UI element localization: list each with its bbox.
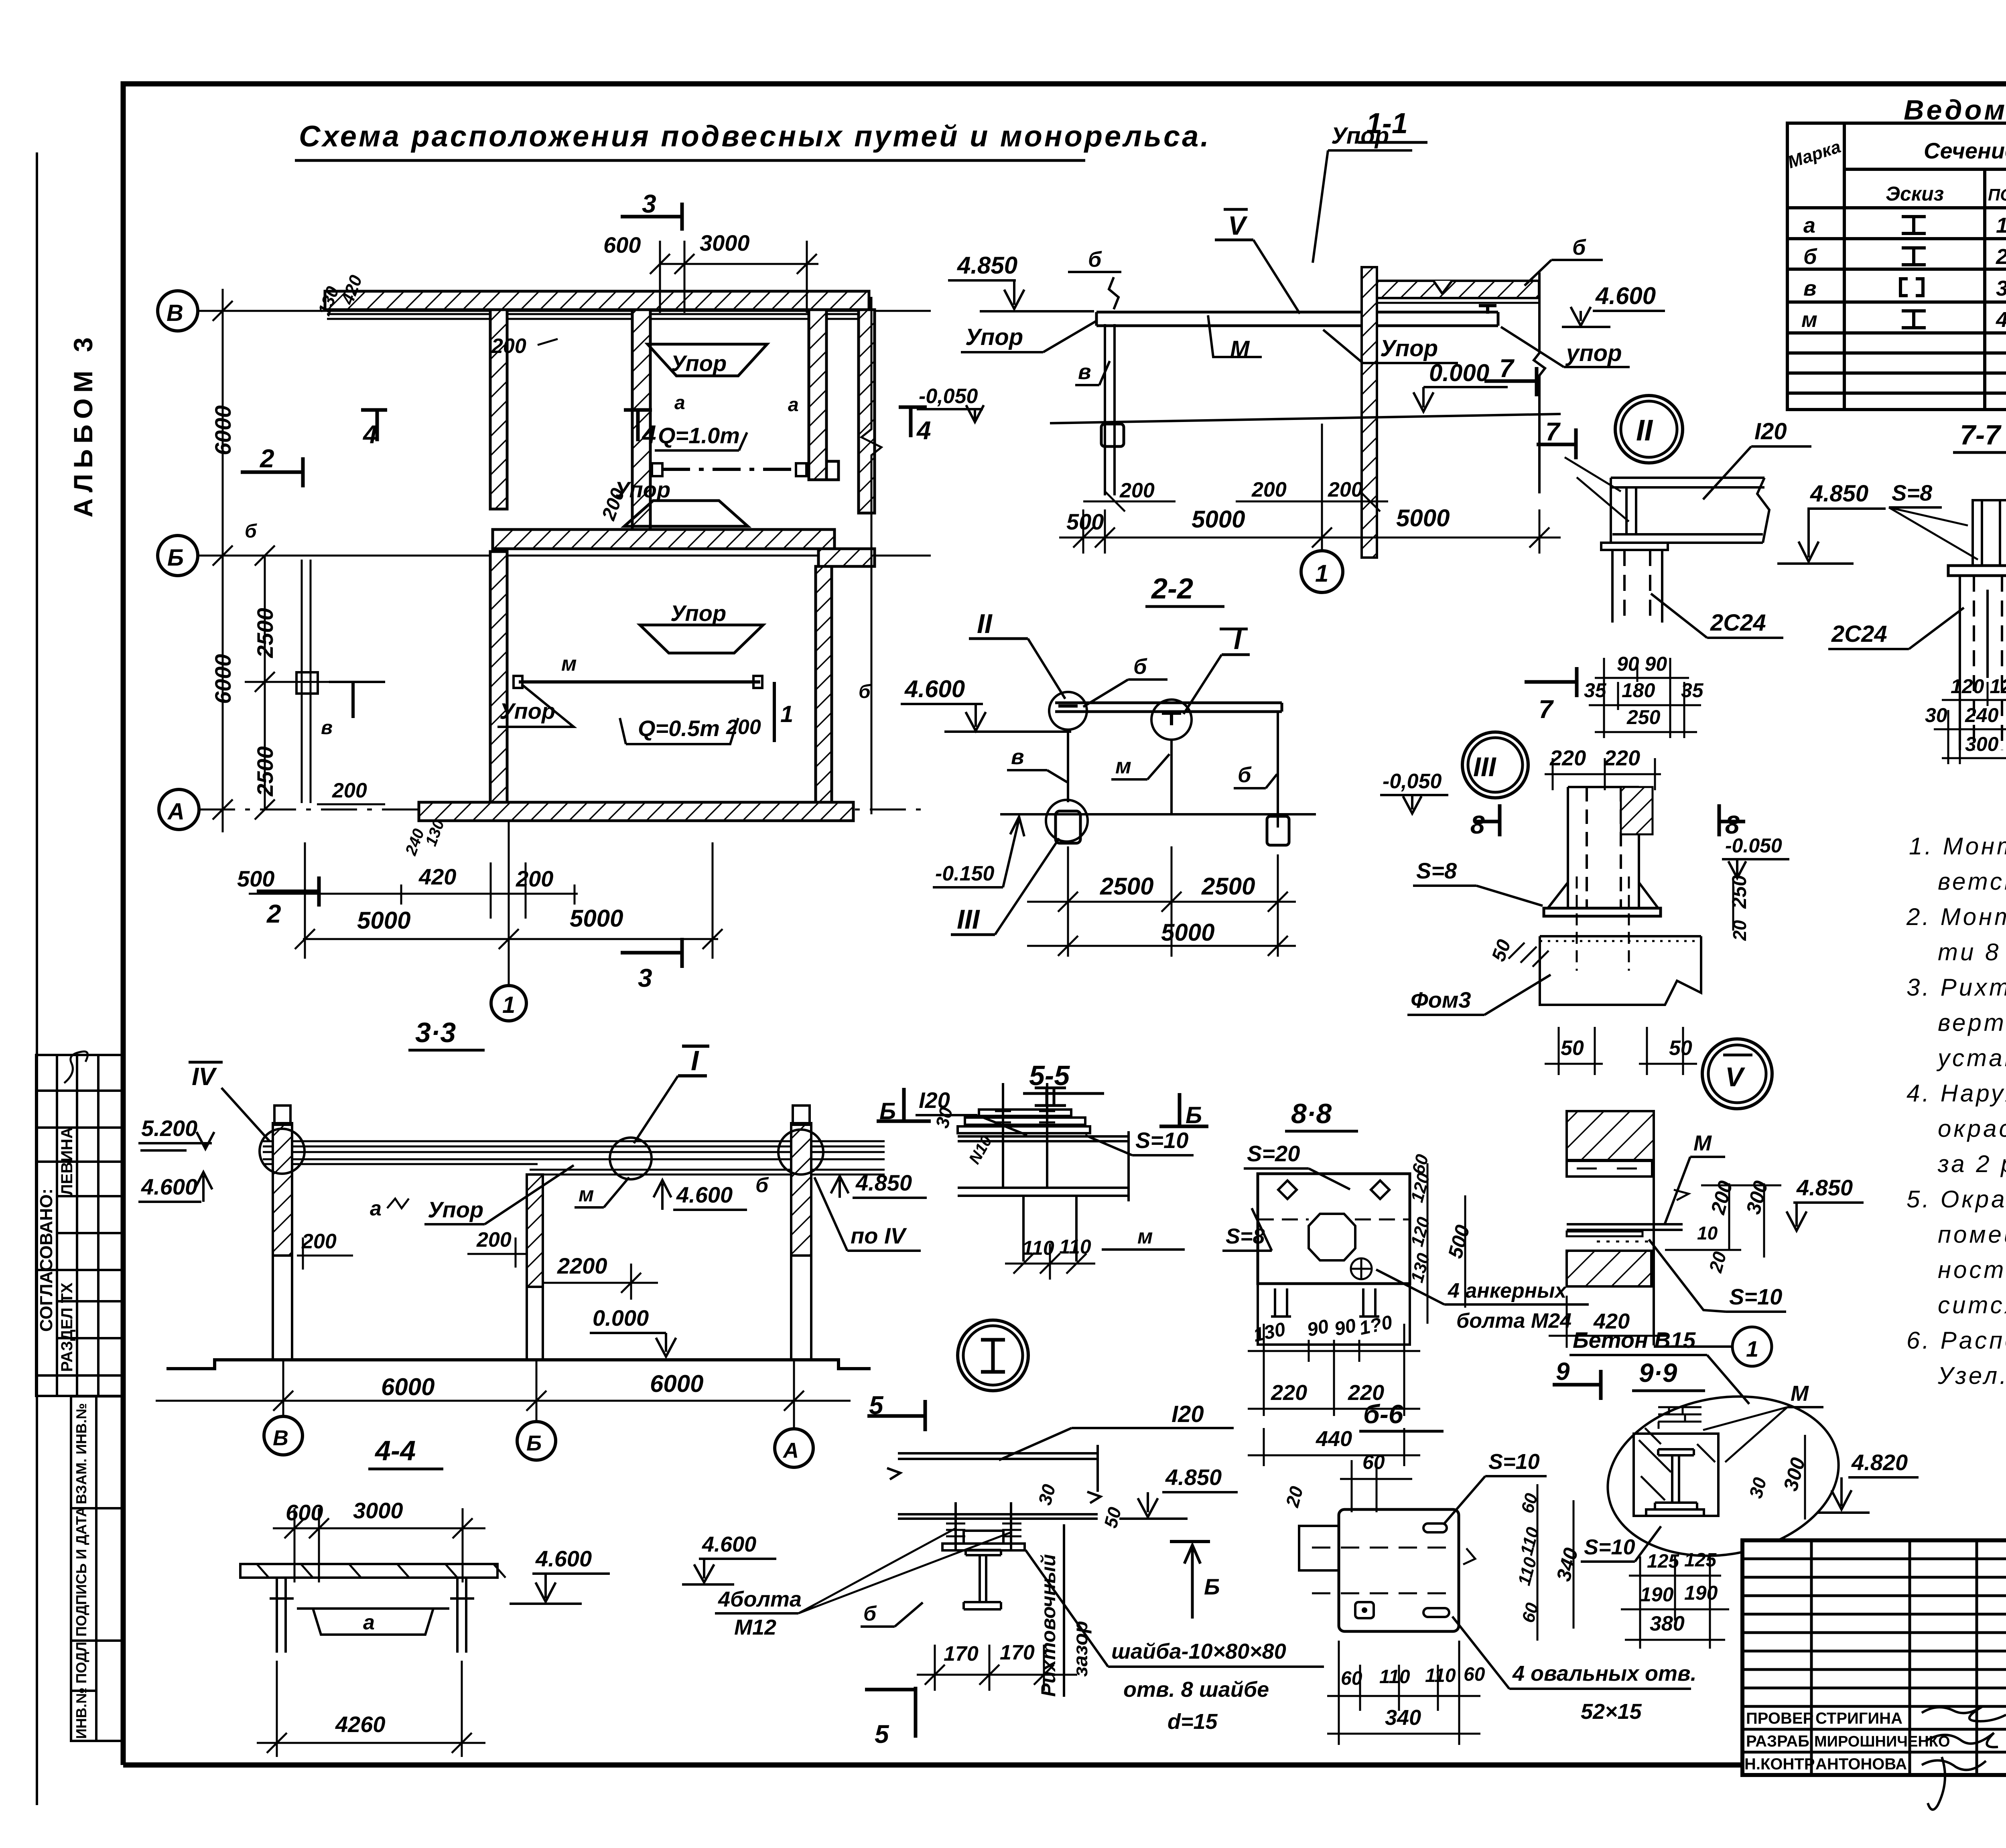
svg-text:4.600: 4.600 bbox=[141, 1174, 197, 1199]
svg-text:сится.: сится. bbox=[1938, 1292, 2006, 1319]
wall W5 right vertical bbox=[859, 310, 875, 513]
svg-text:Фом3: Фом3 bbox=[1411, 987, 1471, 1012]
svg-text:d=15: d=15 bbox=[1167, 1710, 1218, 1734]
svg-text:ность балок защитный слой не н: ность балок защитный слой не нано- bbox=[1938, 1256, 2006, 1283]
svg-text:20: 20 bbox=[1729, 920, 1750, 941]
svg-text:по IV: по IV bbox=[851, 1223, 908, 1248]
svg-text:ветствии с указаниями 1.426.2-: ветствии с указаниями 1.426.2-6 вып.1. bbox=[1938, 868, 2006, 895]
svg-text:АНТОНОВА: АНТОНОВА bbox=[1815, 1755, 1907, 1773]
beam 2-2 bbox=[1055, 703, 1282, 712]
floor line bbox=[1050, 414, 1561, 423]
svg-text:200: 200 bbox=[332, 779, 367, 802]
slab band right bbox=[1377, 281, 1539, 298]
svg-text:за 2 раза по грунтовке.: за 2 раза по грунтовке. bbox=[1937, 1150, 2006, 1177]
circled 1 V bbox=[1732, 1327, 1772, 1366]
svg-text:3·3: 3·3 bbox=[415, 1017, 456, 1048]
floor 2-2 bbox=[1000, 813, 1316, 815]
svg-text:м: м bbox=[1801, 308, 1817, 332]
svg-text:РАЗРАБ: РАЗРАБ bbox=[1746, 1732, 1809, 1750]
svg-text:S=10: S=10 bbox=[1135, 1128, 1188, 1153]
svg-text:5-5: 5-5 bbox=[1029, 1060, 1070, 1091]
I stub bbox=[1973, 500, 2006, 566]
svg-text:50: 50 bbox=[1669, 1037, 1692, 1060]
svg-text:440: 440 bbox=[1316, 1427, 1352, 1451]
svg-text:ЛЕВИНА: ЛЕВИНА bbox=[58, 1127, 76, 1195]
svg-text:4.600: 4.600 bbox=[904, 676, 965, 702]
section marker 4 left bbox=[361, 408, 387, 412]
svg-text:б: б bbox=[1133, 655, 1147, 679]
svg-text:вертикали производится путем: вертикали производится путем bbox=[1938, 1009, 2006, 1036]
lower room monorail dash-dot bbox=[519, 680, 760, 684]
svg-text:0.000: 0.000 bbox=[593, 1305, 649, 1331]
circles on beam bbox=[1049, 692, 1087, 730]
svg-text:Упор: Упор bbox=[428, 1197, 483, 1222]
svg-text:V: V bbox=[1725, 1062, 1746, 1092]
column III bbox=[1568, 787, 1639, 908]
svg-text:S=8: S=8 bbox=[1226, 1224, 1265, 1248]
circled 1 bottom bbox=[491, 986, 526, 1021]
svg-text:4.850: 4.850 bbox=[855, 1170, 912, 1195]
suspension bolts узел I bbox=[954, 1502, 957, 1549]
svg-text:М: М bbox=[1693, 1131, 1712, 1155]
svg-text:420: 420 bbox=[418, 864, 456, 889]
svg-text:170: 170 bbox=[944, 1642, 979, 1665]
section marker 3 bottom bbox=[621, 951, 682, 955]
а channel 4-4 bbox=[297, 1609, 449, 1635]
wall W2 vertical lower bbox=[490, 552, 507, 803]
anchor bolts bbox=[1576, 876, 1578, 971]
svg-text:М: М bbox=[1230, 336, 1250, 362]
svg-text:4.850: 4.850 bbox=[1810, 481, 1868, 507]
svg-text:III: III bbox=[1473, 752, 1497, 782]
svg-text:б: б bbox=[859, 681, 871, 702]
svg-text:3: 3 bbox=[642, 189, 656, 218]
svg-text:200: 200 bbox=[1119, 479, 1155, 502]
svg-text:2: 2 bbox=[1996, 245, 2006, 269]
svg-text:4.850: 4.850 bbox=[957, 252, 1017, 279]
svg-text:340: 340 bbox=[1385, 1706, 1421, 1730]
svg-text:220: 220 bbox=[1604, 746, 1640, 770]
bottom dim 5000 5000 bbox=[295, 821, 723, 987]
svg-text:в: в bbox=[1078, 360, 1091, 384]
1 marker left lower room bbox=[351, 682, 355, 718]
svg-text:5: 5 bbox=[875, 1720, 889, 1749]
svg-text:8·8: 8·8 bbox=[1291, 1098, 1332, 1129]
рихтовочный зазор bbox=[1063, 1524, 1065, 1697]
svg-text:170: 170 bbox=[1000, 1641, 1035, 1664]
wall W7 below Б bbox=[816, 566, 832, 803]
svg-text:ти 8 по ГОСТ 7798-70.: ти 8 по ГОСТ 7798-70. bbox=[1938, 939, 2006, 966]
svg-text:90 90: 90 90 bbox=[1617, 653, 1667, 675]
svg-text:Упор: Упор bbox=[499, 698, 555, 724]
svg-text:Н.КОНТР: Н.КОНТР bbox=[1744, 1755, 1815, 1773]
svg-text:90: 90 bbox=[1332, 1315, 1358, 1340]
svg-text:Рихтовочный: Рихтовочный bbox=[1037, 1554, 1060, 1697]
svg-text:окрасить масляной краской ГОСТ: окрасить масляной краской ГОСТ8292-85 bbox=[1938, 1115, 2006, 1142]
hangers bbox=[1067, 730, 1069, 802]
svg-text:0.000: 0.000 bbox=[1429, 359, 1489, 386]
svg-text:Б: Б bbox=[526, 1431, 542, 1455]
svg-text:300: 300 bbox=[1965, 733, 1999, 755]
svg-text:б: б bbox=[1238, 763, 1252, 787]
svg-text:2200: 2200 bbox=[557, 1253, 607, 1278]
cap node circles bbox=[260, 1129, 305, 1174]
wall В band bbox=[325, 291, 869, 310]
V walls and beam bbox=[1567, 1111, 1654, 1160]
svg-text:ПОЗ: ПОЗ bbox=[1988, 185, 2006, 204]
svg-text:3: 3 bbox=[638, 964, 652, 992]
svg-text:4.600: 4.600 bbox=[702, 1532, 756, 1556]
bricks bbox=[1658, 1407, 1701, 1429]
svg-text:4 анкерных: 4 анкерных bbox=[1448, 1279, 1567, 1302]
svg-text:м: м bbox=[561, 652, 577, 676]
plates stack bbox=[958, 1110, 1090, 1133]
svg-text:S=8: S=8 bbox=[1416, 858, 1457, 883]
column 7-7 bbox=[1960, 576, 2006, 750]
bolts through bbox=[1002, 1083, 1004, 1187]
svg-text:б: б bbox=[863, 1602, 877, 1625]
svg-text:60: 60 bbox=[1464, 1664, 1485, 1685]
svg-text:S=10: S=10 bbox=[1584, 1535, 1635, 1559]
lower part bbox=[1258, 1284, 1410, 1345]
svg-text:5.200: 5.200 bbox=[141, 1116, 197, 1141]
svg-text:Упор: Упор bbox=[1380, 335, 1438, 361]
svg-text:Упор: Упор bbox=[670, 600, 726, 626]
svg-text:б: б bbox=[1803, 245, 1817, 269]
dims right 6-6 bbox=[1537, 1484, 1574, 1641]
svg-text:7: 7 bbox=[1539, 695, 1554, 724]
svg-text:зазор: зазор bbox=[1069, 1621, 1092, 1677]
svg-text:Упор: Упор bbox=[671, 351, 727, 376]
svg-text:I20: I20 bbox=[1172, 1401, 1204, 1427]
svg-text:1: 1 bbox=[780, 701, 793, 727]
svg-text:125: 125 bbox=[1684, 1550, 1717, 1571]
7 marker right bbox=[1484, 379, 1537, 383]
svg-text:2C24: 2C24 bbox=[1831, 621, 1887, 647]
svg-text:Схема расположения подвесных п: Схема расположения подвесных путей и мон… bbox=[299, 120, 1211, 153]
beam 1-1 bbox=[1096, 312, 1498, 326]
svg-text:5000: 5000 bbox=[1161, 919, 1214, 946]
svg-text:200: 200 bbox=[476, 1228, 512, 1252]
right wall bbox=[1534, 272, 1545, 493]
svg-text:4-4: 4-4 bbox=[374, 1435, 416, 1466]
svg-text:Б: Б bbox=[1204, 1574, 1220, 1599]
svg-text:шайба-10×80×80: шайба-10×80×80 bbox=[1111, 1639, 1286, 1663]
svg-text:190: 190 bbox=[1684, 1582, 1718, 1604]
plate 6-6 bbox=[1339, 1509, 1459, 1631]
svg-text:500: 500 bbox=[1066, 509, 1104, 534]
svg-text:10: 10 bbox=[1697, 1223, 1718, 1243]
wall Б band bbox=[493, 529, 834, 549]
svg-text:2: 2 bbox=[266, 899, 281, 928]
section marker 2 bottom bbox=[257, 890, 319, 893]
svg-text:600: 600 bbox=[286, 1500, 323, 1525]
svg-text:2C24: 2C24 bbox=[1710, 610, 1766, 636]
column below II bbox=[1612, 550, 1662, 623]
svg-text:-0.050: -0.050 bbox=[1725, 834, 1782, 857]
svg-text:3: 3 bbox=[1996, 276, 2006, 300]
svg-text:200: 200 bbox=[301, 1230, 337, 1253]
svg-text:ВЗАМ. ИНВ.№: ВЗАМ. ИНВ.№ bbox=[73, 1403, 89, 1504]
left dim line 6000/6000 bbox=[213, 289, 233, 832]
I beam section in 9-9 bbox=[1655, 1449, 1697, 1509]
svg-text:РАЗДЕЛ ТХ: РАЗДЕЛ ТХ bbox=[58, 1282, 76, 1372]
svg-text:3000: 3000 bbox=[353, 1498, 403, 1523]
wall А band bbox=[419, 802, 853, 821]
svg-text:4: 4 bbox=[641, 420, 656, 449]
svg-text:50: 50 bbox=[1561, 1037, 1584, 1060]
svg-text:СТРИГИНА: СТРИГИНА bbox=[1815, 1710, 1902, 1727]
svg-text:установки прокладок в зазор δ=: установки прокладок в зазор δ=30 мм bbox=[1936, 1045, 2006, 1071]
7 marker bottom bbox=[1525, 680, 1577, 684]
svg-text:4.820: 4.820 bbox=[1851, 1450, 1908, 1475]
svg-text:Q=0.5т: Q=0.5т bbox=[638, 716, 720, 741]
svg-text:б: б bbox=[755, 1174, 769, 1197]
svg-text:3000: 3000 bbox=[700, 230, 750, 256]
svg-text:4.600: 4.600 bbox=[1595, 282, 1656, 309]
svg-text:2500: 2500 bbox=[252, 746, 278, 797]
svg-text:Сечение: Сечение bbox=[1924, 138, 2006, 163]
svg-text:4: 4 bbox=[1996, 308, 2006, 332]
ground 3-3 bbox=[166, 1360, 871, 1369]
svg-text:Ведомость сечений: Ведомость сечений bbox=[1904, 94, 2006, 126]
svg-text:отв. 8 шайбе: отв. 8 шайбе bbox=[1123, 1678, 1269, 1702]
svg-text:6. Расположение упоров см. сер: 6. Расположение упоров см. серию 1.426.2… bbox=[1907, 1327, 2006, 1354]
svg-text:I20: I20 bbox=[1754, 418, 1787, 444]
dims right of 8-8 bbox=[1427, 1163, 1465, 1324]
svg-text:7-7: 7-7 bbox=[1960, 419, 2002, 450]
svg-text:Б: Б bbox=[1186, 1102, 1202, 1128]
I20 section top bbox=[1035, 1088, 1066, 1106]
svg-text:-0.150: -0.150 bbox=[935, 862, 995, 885]
svg-text:2500: 2500 bbox=[1100, 873, 1153, 900]
svg-text:5000: 5000 bbox=[357, 907, 410, 934]
I section below bbox=[964, 1550, 1001, 1609]
svg-text:7: 7 bbox=[1499, 354, 1515, 383]
svg-text:220: 220 bbox=[1271, 1381, 1307, 1405]
wall W4 vertical bbox=[809, 310, 826, 480]
svg-text:болта М24: болта М24 bbox=[1456, 1309, 1572, 1333]
7 marker left bbox=[1537, 443, 1576, 446]
svg-text:6000: 6000 bbox=[210, 654, 236, 704]
mid wall bbox=[1362, 267, 1377, 558]
beam side view 5-5 bbox=[958, 1131, 1129, 1201]
svg-text:II: II bbox=[1636, 414, 1653, 447]
svg-text:Q=1.0т: Q=1.0т bbox=[658, 423, 740, 448]
svg-text:II: II bbox=[977, 609, 993, 639]
svg-text:а: а bbox=[363, 1611, 375, 1634]
roof beams bbox=[263, 1141, 885, 1175]
svg-text:МИРОШНИЧЕНКО: МИРОШНИЧЕНКО bbox=[1814, 1733, 1950, 1750]
svg-text:в: в bbox=[1011, 745, 1024, 769]
svg-text:600: 600 bbox=[603, 232, 641, 258]
svg-text:а: а bbox=[788, 394, 799, 416]
left column в bbox=[1104, 324, 1106, 495]
svg-text:Б: Б bbox=[167, 545, 184, 571]
svg-text:4.850: 4.850 bbox=[1165, 1465, 1222, 1490]
svg-text:500: 500 bbox=[237, 866, 274, 891]
plate 8-8 bbox=[1258, 1174, 1410, 1284]
svg-text:4: 4 bbox=[362, 420, 378, 449]
svg-text:200: 200 bbox=[491, 335, 526, 358]
svg-text:ИНВ.№ ПОДЛ: ИНВ.№ ПОДЛ bbox=[73, 1642, 89, 1739]
svg-text:Эскиз: Эскиз bbox=[1886, 183, 1944, 205]
svg-text:5000: 5000 bbox=[1396, 505, 1450, 531]
svg-text:200: 200 bbox=[1251, 478, 1287, 501]
svg-text:м: м bbox=[1137, 1225, 1153, 1248]
axis В circle bbox=[158, 291, 199, 830]
svg-text:I: I bbox=[691, 1045, 699, 1076]
wall W2 vertical upper bbox=[490, 310, 507, 509]
dims 9-9 bbox=[1804, 1435, 1806, 1519]
svg-text:6000: 6000 bbox=[650, 1370, 703, 1397]
svg-text:2: 2 bbox=[260, 444, 274, 473]
svg-text:упор: упор bbox=[1565, 340, 1622, 366]
svg-text:240: 240 bbox=[1965, 704, 1999, 726]
svg-text:1: 1 bbox=[1315, 560, 1328, 587]
svg-text:б: б bbox=[1572, 235, 1586, 260]
foundation bbox=[1540, 935, 1701, 937]
svg-text:Узел. 3.: Узел. 3. bbox=[1937, 1362, 2006, 1389]
upor trapezoid upper room top bbox=[648, 344, 767, 376]
svg-text:2500: 2500 bbox=[1201, 873, 1255, 900]
bolt box on column bbox=[1101, 424, 1124, 446]
svg-text:-0,050: -0,050 bbox=[919, 385, 978, 408]
beam II bbox=[1611, 478, 1769, 543]
svg-text:5000: 5000 bbox=[1192, 506, 1245, 533]
svg-text:200: 200 bbox=[1328, 478, 1363, 501]
upper room monorail dash-dot bbox=[662, 468, 796, 471]
svg-text:ПРОВЕР: ПРОВЕР bbox=[1746, 1710, 1813, 1727]
wall W3 vertical bbox=[632, 310, 650, 529]
svg-text:2500: 2500 bbox=[252, 608, 278, 658]
axes + dims 6000 6000 bbox=[156, 1360, 851, 1429]
svg-text:4 овальных отв.: 4 овальных отв. bbox=[1512, 1661, 1697, 1686]
svg-text:б: б bbox=[245, 521, 257, 542]
svg-text:б-6: б-6 bbox=[1363, 1399, 1404, 1429]
svg-text:90: 90 bbox=[1305, 1316, 1331, 1341]
svg-text:1. Монтаж подвесных путей вест: 1. Монтаж подвесных путей вести в соот- bbox=[1909, 833, 2006, 860]
bolt square on в line bbox=[296, 672, 318, 694]
svg-text:7: 7 bbox=[1545, 417, 1561, 446]
5 marker bottom bbox=[865, 1688, 916, 1692]
svg-text:а: а bbox=[370, 1197, 382, 1220]
svg-text:4.600: 4.600 bbox=[676, 1182, 733, 1207]
svg-text:60: 60 bbox=[1362, 1451, 1385, 1473]
Б marker узел I bbox=[1170, 1540, 1210, 1543]
bottom fittings bbox=[1046, 800, 1088, 842]
svg-text:М12: М12 bbox=[734, 1615, 776, 1639]
svg-text:S=20: S=20 bbox=[1247, 1141, 1300, 1166]
svg-text:Упор: Упор bbox=[965, 324, 1023, 350]
svg-text:190: 190 bbox=[1640, 1583, 1674, 1606]
svg-text:380: 380 bbox=[1650, 1612, 1685, 1635]
svg-text:б: б bbox=[1088, 247, 1102, 272]
svg-text:4.600: 4.600 bbox=[535, 1546, 592, 1571]
svg-text:III: III bbox=[957, 904, 981, 935]
svg-text:V: V bbox=[1228, 211, 1248, 240]
svg-text:6000: 6000 bbox=[210, 405, 236, 455]
svg-text:Упор: Упор bbox=[1331, 123, 1389, 149]
в beam pair lines lower left bbox=[301, 560, 303, 803]
svg-text:8: 8 bbox=[1470, 810, 1485, 839]
svg-text:СОГЛАСОВАНО:: СОГЛАСОВАНО: bbox=[37, 1189, 56, 1332]
svg-text:В: В bbox=[166, 300, 183, 326]
slab 4-4 bbox=[240, 1564, 497, 1578]
hangers 4-4 bbox=[270, 1578, 474, 1653]
signatures bbox=[1922, 1707, 2006, 1721]
svg-text:3. Рихтовка подкрановых путей: 3. Рихтовка подкрановых путей по bbox=[1907, 974, 2006, 1001]
svg-text:30: 30 bbox=[1925, 704, 1947, 726]
wall W4 notch bbox=[826, 461, 839, 480]
svg-text:9: 9 bbox=[1556, 1358, 1570, 1385]
svg-text:6000: 6000 bbox=[381, 1373, 434, 1400]
svg-text:м: м bbox=[1115, 754, 1131, 778]
svg-text:АЛЬБОМ 3: АЛЬБОМ 3 bbox=[68, 332, 98, 517]
svg-text:250: 250 bbox=[1626, 706, 1661, 728]
circled 1 under 1-1 bbox=[1321, 424, 1323, 550]
svg-text:а: а bbox=[1803, 213, 1815, 237]
svg-text:5. Окраску металлоконструкции: 5. Окраску металлоконструкции внутри bbox=[1907, 1186, 2006, 1213]
gussets + base plate bbox=[1548, 882, 1658, 908]
svg-text:220: 220 bbox=[1549, 746, 1586, 770]
svg-text:ПОДПИСЬ И ДАТА: ПОДПИСЬ И ДАТА bbox=[73, 1507, 89, 1637]
svg-text:4болта: 4болта bbox=[718, 1587, 802, 1611]
svg-text:110: 110 bbox=[1379, 1666, 1410, 1688]
svg-text:4.850: 4.850 bbox=[1796, 1175, 1853, 1200]
svg-text:2. Монтажные болты М12 класса: 2. Монтажные болты М12 класса точнос- bbox=[1906, 903, 2006, 930]
svg-text:9·9: 9·9 bbox=[1639, 1358, 1677, 1388]
section marker 3 top bbox=[621, 215, 682, 219]
svg-text:110: 110 bbox=[1425, 1665, 1456, 1686]
svg-text:в: в bbox=[321, 717, 333, 738]
left lower strip bbox=[71, 1396, 123, 1741]
svg-text:2-2: 2-2 bbox=[1151, 573, 1193, 605]
svg-text:4. Наружные металлоконструкции: 4. Наружные металлоконструкции bbox=[1907, 1080, 2006, 1107]
svg-text:4260: 4260 bbox=[335, 1712, 386, 1737]
svg-text:S=10: S=10 bbox=[1488, 1450, 1540, 1474]
dims right of III bbox=[1732, 878, 1734, 931]
axis circles 3-3 bbox=[264, 1416, 303, 1455]
svg-text:в: в bbox=[1803, 276, 1817, 300]
axis lines bbox=[198, 311, 931, 809]
beam lines under В bbox=[327, 313, 869, 315]
section marker 2 left bbox=[241, 471, 303, 474]
svg-text:52×15: 52×15 bbox=[1581, 1700, 1642, 1724]
wall Б step right bbox=[818, 549, 875, 566]
svg-text:180: 180 bbox=[1622, 679, 1655, 702]
svg-text:S=10: S=10 bbox=[1729, 1284, 1782, 1309]
svg-text:а: а bbox=[674, 392, 685, 414]
hanger bolts below bbox=[1022, 1196, 1025, 1262]
svg-text:помещений см. лист 1. На ездо: помещений см. лист 1. На ездовую поверх- bbox=[1938, 1221, 2006, 1248]
svg-text:А: А bbox=[167, 799, 185, 825]
dim 2500/2500 bbox=[245, 546, 345, 820]
svg-text:м: м bbox=[579, 1183, 594, 1206]
svg-text:-0,050: -0,050 bbox=[1383, 770, 1442, 793]
svg-text:200: 200 bbox=[726, 716, 761, 739]
left stamp box grid bbox=[36, 1055, 123, 1396]
section marker 4 right + break line bbox=[899, 406, 927, 409]
svg-text:М: М bbox=[1791, 1381, 1809, 1406]
section marker 4 mid bbox=[624, 408, 652, 412]
svg-text:1: 1 bbox=[1996, 213, 2006, 237]
columns bbox=[273, 1123, 292, 1256]
svg-text:5000: 5000 bbox=[570, 905, 623, 932]
svg-text:А: А bbox=[782, 1438, 799, 1463]
svg-text:Бетон В15: Бетон В15 bbox=[1573, 1327, 1696, 1353]
svg-text:1: 1 bbox=[502, 992, 515, 1018]
